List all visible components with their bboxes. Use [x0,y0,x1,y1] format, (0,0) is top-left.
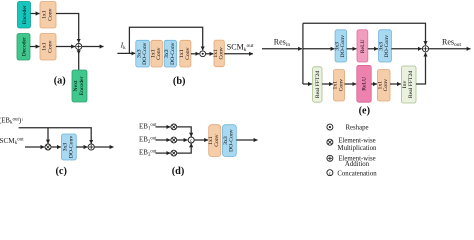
svg-text:Conv: Conv [156,47,162,59]
svg-text:Encoder: Encoder [79,76,85,95]
svg-text:Real FFT2d: Real FFT2d [315,71,321,98]
svg-text:(b): (b) [173,76,186,87]
legend adder symbol [327,155,333,161]
wire adder to next encoder [78,50,80,70]
wire concat to conv (d) [194,139,208,141]
branch to multiplier (c) [47,128,49,144]
1x1 conv box (a bottom) [40,34,56,61]
legend multiplier symbol [327,139,333,145]
adder circle (a) [76,43,82,49]
wire EB1 to multiplier [156,126,171,128]
multiplier circle d3 [171,150,177,156]
wire conv to relu bottom [345,83,357,85]
input wire (b) [117,52,135,54]
wire relu to conv bottom 2 [371,83,377,85]
svg-text:Addition: Addition [345,161,370,168]
next encoder box [72,70,87,102]
do-conv box (d) [223,125,237,157]
relu box e middle [357,30,368,62]
reshape circle (b) [200,51,206,57]
svg-text:(d): (d) [172,166,185,176]
svg-text:Ik: Ik [120,41,127,51]
svg-text:(e): (e) [359,106,370,117]
svg-text:SCMkout: SCMkout [227,43,254,53]
svg-text:ReLU: ReLU [362,77,368,91]
concat circle (d) [188,137,194,143]
svg-text:Conv: Conv [214,134,220,146]
wire fft to conv e1 [322,83,333,85]
encoder box (a) [18,2,31,29]
svg-text:Reshape: Reshape [345,125,368,132]
input wire (e) [262,48,302,50]
svg-text:Multiplication: Multiplication [338,145,377,152]
conv box e bottom 1 [334,70,345,102]
svg-text:DO-Conv: DO-Conv [68,136,74,159]
svg-text:DO-Conv: DO-Conv [142,42,148,65]
legend reshape symbol [327,124,333,130]
svg-text:DO-Conv: DO-Conv [340,35,346,58]
svg-text:Conv: Conv [338,79,344,91]
wire decoder to conv [30,46,40,48]
1x1 conv box (a top) [40,2,56,29]
conv box b2 [151,40,163,67]
output wire (e) [429,48,471,50]
real fft2d box [313,67,322,102]
wire encoder to conv [31,13,40,15]
wire multiplier to do-conv (c) [51,146,61,148]
conv box b5 [214,40,224,67]
svg-text:Element-wise: Element-wise [338,137,375,144]
svg-text:EB3out: EB3out [139,149,157,158]
svg-text:Conv: Conv [219,47,225,59]
svg-text:(a): (a) [54,75,66,86]
svg-text:Resout: Resout [442,38,462,48]
svg-text:Resin: Resin [274,38,291,48]
svg-text:Real FFT2d: Real FFT2d [408,71,414,98]
multiplier circle d2 [171,137,177,143]
skip wire (b) [129,27,202,53]
wire d1 to concat [177,127,192,137]
output arrow (c) [94,146,113,148]
svg-text:Concatenation: Concatenation [337,171,377,176]
wire EB3 to multiplier [156,152,171,154]
branch vertical (e) [302,23,304,84]
adder circle (c) [88,144,94,150]
wire to relu e [347,48,357,50]
bottom wire (c) [25,146,44,148]
wire conv to inv fft [390,83,401,85]
wire inv fft to adder (e) [416,53,426,84]
svg-text:Encoder: Encoder [22,5,28,24]
svg-text:SCMkout: SCMkout [0,137,24,146]
top skip wire (e) [303,23,426,45]
wire reshape to conv [206,53,214,55]
wire d3 to concat [177,143,192,153]
svg-text:ReLU: ReLU [360,39,366,53]
svg-text:DO-Conv: DO-Conv [170,42,176,65]
conv box (d) [209,125,221,157]
wire relu to do-conv e2 [368,48,378,50]
inv real fft2d box [402,66,417,103]
wire conv to adder left [56,46,75,48]
output arrow (a) [82,46,104,48]
conv box e bottom 2 [378,70,391,102]
svg-text:EB1out: EB1out [139,123,157,132]
legend concat symbol [327,170,333,176]
do-conv box b3 [164,40,176,67]
decoder box (a) [17,34,30,61]
do-conv box e1 [335,30,347,62]
conv box b4 [180,40,191,67]
wire d2 to concat [177,139,188,141]
wire do-conv to adder (c) [76,146,87,148]
svg-text:EB2out: EB2out [139,136,157,145]
branch to fft path [303,83,312,85]
do-conv box b1 [136,40,150,67]
do-conv box (c) [62,134,77,160]
wire EB2 to multiplier [156,139,171,141]
do-conv box e2 [379,30,392,62]
adder circle (e) [422,46,428,52]
multiplier circle d1 [171,124,177,130]
svg-text:Conv: Conv [47,40,53,52]
svg-text:Conv: Conv [185,47,191,59]
output arrow (d) [236,139,257,141]
wire conv to adder (a) [56,14,79,43]
svg-text:(EBkout)↓: (EBkout)↓ [0,117,24,126]
wire to do-conv e1 [303,48,335,50]
output wire (b) [224,53,253,55]
svg-text:DO-Conv: DO-Conv [229,129,235,152]
svg-text:Conv: Conv [383,79,389,91]
top wire (c) [19,128,92,144]
wire do-conv e2 to adder [391,48,421,50]
svg-text:(c): (c) [55,166,66,176]
multiplier circle (c) [45,144,51,150]
svg-text:DO-Conv: DO-Conv [384,35,390,58]
relu box e bottom [357,65,371,102]
svg-text:Conv: Conv [47,8,53,20]
svg-text:Decoder: Decoder [21,37,27,56]
wire b4 to reshape [191,53,199,55]
